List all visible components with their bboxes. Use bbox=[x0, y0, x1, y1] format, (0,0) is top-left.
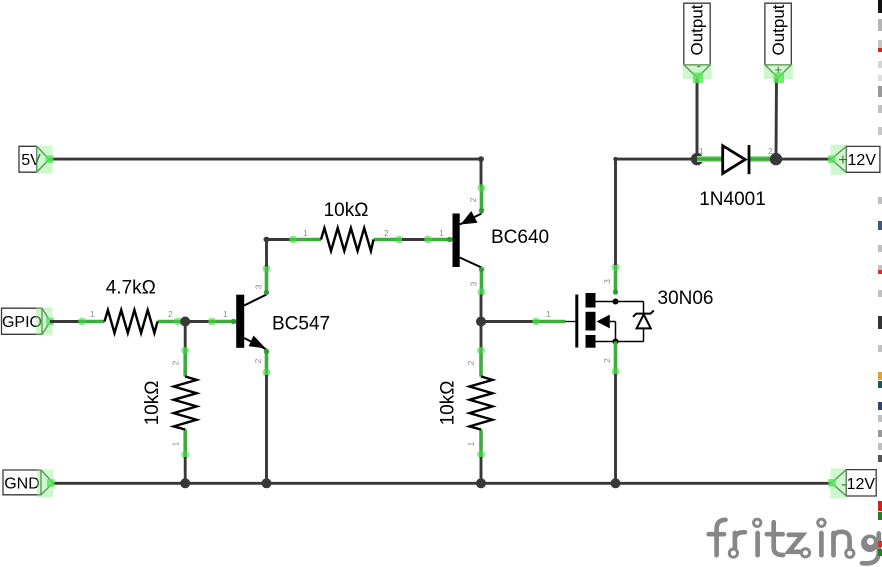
wire 5V down to BC640 emitter bbox=[480, 159, 483, 186]
net label +12V bbox=[828, 145, 880, 175]
svg-text:1: 1 bbox=[546, 309, 551, 319]
MOSFET Q3 gate lead bbox=[532, 318, 576, 326]
transistor Q2 BC640 pin1 base lead bbox=[424, 236, 453, 244]
wire rail to +12V bbox=[776, 158, 831, 161]
net label GND bbox=[3, 470, 55, 498]
wire junction to MOSFET gate bbox=[481, 320, 533, 323]
net label -12V bbox=[828, 469, 876, 499]
wire bend BC547 collector bbox=[264, 237, 270, 243]
wire MOSFET source to GND bbox=[614, 374, 617, 483]
svg-text:1: 1 bbox=[303, 228, 308, 238]
node junction rail/output2 bbox=[770, 153, 782, 165]
svg-text:1N4001: 1N4001 bbox=[699, 189, 766, 210]
svg-text:2: 2 bbox=[168, 309, 173, 319]
svg-text:1: 1 bbox=[466, 441, 476, 446]
svg-text:Output: Output bbox=[769, 4, 788, 55]
node junction GND/R4 bbox=[476, 478, 486, 488]
node junction GND/R3 bbox=[180, 478, 190, 488]
svg-text:1: 1 bbox=[439, 228, 444, 238]
transistor Q2 pin2 emitter lead bbox=[478, 184, 486, 214]
svg-text:3: 3 bbox=[602, 279, 612, 284]
svg-text:10kΩ: 10kΩ bbox=[438, 381, 459, 426]
MOSFET Q3 pin3 drain lead bbox=[612, 263, 620, 295]
svg-text:2: 2 bbox=[602, 358, 612, 363]
svg-text:1: 1 bbox=[171, 441, 181, 446]
svg-text:2: 2 bbox=[466, 360, 476, 365]
right edge UI fragments bbox=[878, 0, 882, 556]
wire R3 to GND bbox=[184, 457, 187, 483]
MOSFET Q3 30N06 symbol bbox=[575, 293, 654, 348]
svg-text:10kΩ: 10kΩ bbox=[324, 200, 369, 221]
wire GND rail bbox=[53, 482, 832, 485]
net label Output - bbox=[683, 3, 712, 83]
wire output2 drop bbox=[775, 78, 778, 159]
wire R2 to BC640 base bbox=[402, 238, 425, 241]
wire R4 to GND bbox=[480, 457, 483, 483]
node junction GND/Q1 bbox=[262, 478, 272, 488]
transistor Q2 pin3 collector lead bbox=[478, 267, 486, 296]
net label GPIO bbox=[2, 308, 54, 336]
svg-text:4.7kΩ: 4.7kΩ bbox=[106, 278, 156, 299]
node junction GPIO/R3/BC547 bbox=[180, 317, 190, 327]
wire bend to R2 bbox=[266, 238, 290, 241]
resistor R1 4.7k leads bbox=[78, 318, 182, 326]
transistor Q1 BC547 pin1 base lead bbox=[208, 318, 236, 326]
svg-text:2: 2 bbox=[171, 360, 181, 365]
net label Output + bbox=[764, 3, 793, 83]
wire BC640 collector to junction bbox=[480, 295, 483, 322]
diode D1 1N4001 lead 1 bbox=[697, 156, 723, 162]
resistor R2 10k top leads bbox=[289, 236, 403, 244]
wire MOSFET drain to rail bbox=[614, 159, 617, 265]
svg-text:2: 2 bbox=[253, 358, 263, 363]
node junction GND/Q3 bbox=[611, 478, 621, 488]
resistor R4 10k zigzag bbox=[470, 377, 493, 430]
svg-text:2: 2 bbox=[468, 197, 478, 202]
svg-text:30N06: 30N06 bbox=[658, 288, 714, 309]
transistor Q2 BC640 symbol bbox=[453, 211, 482, 268]
svg-text:3: 3 bbox=[469, 281, 479, 286]
net label 5V bbox=[19, 146, 53, 174]
wire junction to BC547 base bbox=[185, 320, 209, 323]
wire rail to diode bbox=[616, 158, 698, 161]
svg-text:1: 1 bbox=[699, 146, 704, 156]
fritzing watermark logo bbox=[709, 519, 879, 563]
diode D1 1N4001 lead 2 bbox=[749, 156, 776, 162]
svg-text:GND: GND bbox=[4, 475, 40, 492]
resistor R1 4.7k zigzag bbox=[105, 310, 158, 333]
wire 5V rail bbox=[49, 158, 481, 161]
svg-text:BC640: BC640 bbox=[491, 227, 549, 248]
transistor Q1 BC547 symbol bbox=[236, 295, 266, 350]
svg-text:10kΩ: 10kΩ bbox=[142, 381, 163, 426]
svg-text:1: 1 bbox=[223, 309, 228, 319]
wire output1 drop bbox=[696, 78, 699, 159]
wire BC547 emitter to GND bbox=[265, 375, 268, 483]
node junction BC640/gate/R4 bbox=[476, 317, 486, 327]
wire R4 top stub bbox=[480, 322, 483, 349]
wire R3 top stub bbox=[184, 322, 187, 349]
wire BC547 collector up bbox=[265, 240, 268, 267]
resistor R3 10k left leads bbox=[181, 347, 189, 459]
transistor Q1 pin2 emitter lead bbox=[263, 349, 271, 377]
resistor R2 10k zigzag bbox=[321, 228, 374, 251]
wire GPIO to R1 bbox=[50, 320, 79, 323]
resistor R3 10k zigzag bbox=[174, 377, 197, 430]
body diode bbox=[643, 302, 645, 342]
svg-text:BC547: BC547 bbox=[272, 314, 330, 335]
svg-text:Output: Output bbox=[688, 4, 707, 55]
wire bend at 5V rail to BC640 bbox=[478, 156, 484, 162]
diode D1 1N4001 symbol bbox=[723, 145, 749, 174]
svg-text:3: 3 bbox=[254, 284, 264, 289]
svg-text:1: 1 bbox=[90, 309, 95, 319]
svg-text:2: 2 bbox=[384, 228, 389, 238]
resistor R4 10k right leads bbox=[477, 347, 485, 459]
transistor Q1 pin3 collector lead bbox=[263, 265, 271, 296]
wire bend drain rail bbox=[613, 157, 617, 161]
node junction rail/output1 bbox=[691, 153, 703, 165]
MOSFET Q3 pin2 source lead bbox=[612, 342, 620, 376]
